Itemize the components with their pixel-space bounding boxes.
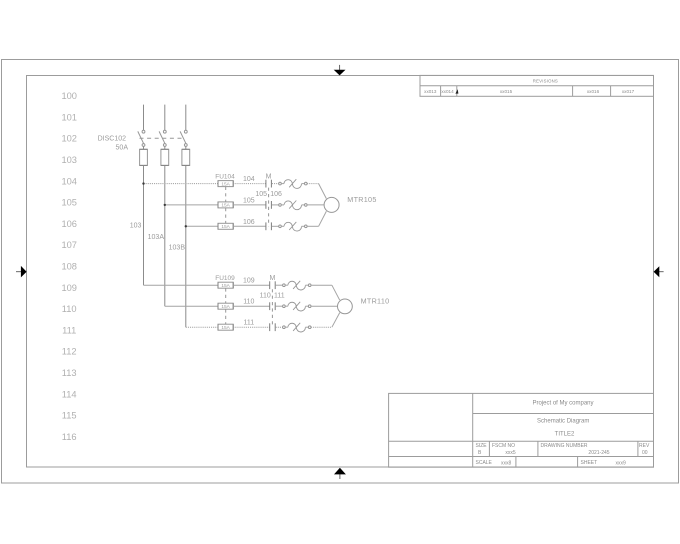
contactor M contact, line 109 [269, 281, 271, 289]
wire: contact to overload, line 109 [276, 284, 283, 286]
disconnect DISC102 pole B: switch blade [159, 131, 165, 143]
wire: fuse to contactor, line 105 [233, 204, 266, 206]
svg-text:15A: 15A [221, 224, 230, 230]
contactor M linkage (dashed), group1 [268, 188, 270, 227]
line fuse, phase B [161, 149, 169, 165]
contactor M contact, line 111 [269, 323, 271, 331]
svg-text:xx014: xx014 [441, 89, 454, 94]
branch fuse FU109 pole 2 (15A) [218, 303, 233, 309]
svg-text:110: 110 [62, 304, 77, 314]
wire: overload to motor, line 105 [307, 204, 324, 206]
motor MTR105 circle [324, 197, 339, 212]
svg-text:M: M [269, 275, 275, 282]
overload heater group1 line 105: element arcs [284, 201, 302, 210]
wire: line 111 tap from phase bus [186, 326, 218, 328]
svg-text:xx013: xx013 [424, 89, 437, 94]
overload heater group2 line 111: left terminal circle [283, 326, 286, 329]
overload heater group1 line 106: left terminal circle [279, 225, 282, 228]
wire: line 104 tap from phase bus [144, 183, 219, 185]
disconnect DISC102 pole C: switch blade [180, 131, 186, 143]
svg-text:Schematic Diagram: Schematic Diagram [537, 418, 589, 424]
svg-text:116: 116 [62, 432, 77, 442]
overload heater group2 line 109: left terminal circle [283, 284, 286, 287]
svg-text:REVISIONS: REVISIONS [533, 78, 558, 83]
motor lead diagonal, line 109 [332, 285, 340, 300]
junction: phase C / line 106 [185, 225, 187, 227]
svg-text:106: 106 [61, 219, 77, 229]
branch fuse FU104 pole 2 (15A) [218, 202, 233, 208]
contactor M linkage (dashed), group2 [271, 289, 273, 327]
revision table [420, 75, 654, 96]
svg-text:114: 114 [62, 389, 77, 399]
svg-text:108: 108 [61, 262, 77, 272]
branch fuse FU104 pole 1 (15A) [218, 181, 233, 187]
overload heater group1 line 106: element arcs [284, 222, 302, 231]
svg-text:107: 107 [61, 240, 77, 250]
wire: phase B bus down to line 110 [164, 165, 166, 306]
left centering arrow [16, 266, 27, 278]
wire inside overload group2 line 110 [285, 305, 288, 307]
motor lead diagonal, line 106 [319, 211, 327, 226]
svg-text:115: 115 [62, 411, 77, 421]
svg-text:xx015: xx015 [500, 89, 513, 94]
wire: pole B to fuse [164, 146, 166, 149]
contactor M contact, line 105 [265, 201, 267, 209]
wire: pole C to fuse [185, 146, 187, 149]
svg-text:15A: 15A [221, 304, 230, 310]
overload heater group1 line 104: left terminal circle [279, 182, 282, 185]
svg-text:FSCM NO: FSCM NO [492, 443, 515, 449]
wire: contact to overload, line 105 [272, 204, 279, 206]
svg-text:xxx9: xxx9 [616, 460, 627, 466]
motor MTR110 circle [338, 299, 353, 314]
wire: contact to overload, line 106 [272, 225, 279, 227]
branch fuse FU109 pole 3 (15A) [218, 324, 233, 330]
wire inside overload group2 line 111 [285, 326, 288, 328]
disconnect DISC102 pole B: bottom contact circle [163, 144, 166, 147]
overload heater group1 line 104: right terminal circle [305, 182, 308, 185]
svg-text:101: 101 [61, 112, 77, 122]
svg-text:113: 113 [62, 368, 77, 378]
svg-text:103: 103 [61, 155, 77, 165]
svg-text:Project of My company: Project of My company [532, 401, 593, 407]
svg-text:111: 111 [274, 293, 285, 300]
svg-text:112: 112 [62, 347, 77, 357]
svg-text:104: 104 [243, 176, 255, 183]
svg-text:15A: 15A [221, 325, 230, 331]
wire: fuse to contactor, line 111 [233, 326, 270, 328]
branch fuse FU104 pole 3 (15A) [218, 223, 233, 229]
wire: line 110 tap from phase bus [165, 305, 218, 307]
wire inside overload group1 line 105 [281, 204, 284, 206]
disconnect DISC102 mechanical linkage (dashed) [140, 137, 185, 139]
wire: fuse to contactor, line 109 [233, 284, 270, 286]
svg-text:104: 104 [61, 176, 77, 186]
top centering arrow [334, 65, 346, 76]
svg-text:103: 103 [130, 223, 142, 230]
wire: phase A incoming drop [143, 105, 145, 131]
wire: fuse to contactor, line 110 [233, 305, 270, 307]
svg-text:2021-245: 2021-245 [588, 450, 609, 456]
svg-text:110: 110 [243, 299, 254, 306]
wire: phase C bus down to line 111 [185, 165, 187, 327]
svg-text:106: 106 [243, 219, 255, 226]
disconnect DISC102 pole A: top contact circle [142, 130, 145, 133]
svg-text:SHEET: SHEET [581, 460, 598, 466]
right centering arrow [654, 266, 664, 277]
svg-text:110: 110 [260, 293, 271, 300]
overload heater group2 line 110: right terminal circle [308, 305, 311, 308]
svg-text:109: 109 [61, 283, 77, 293]
wire: pole A to fuse [143, 146, 145, 149]
overload heater group1 line 104: element arcs [284, 179, 302, 188]
wire inside overload group1 line 106 [281, 225, 284, 227]
svg-text:MTR110: MTR110 [361, 296, 390, 305]
overload heater group2 line 110: left terminal circle [283, 305, 286, 308]
motor lead diagonal, line 104 [319, 184, 327, 199]
line fuse, phase A [140, 149, 148, 165]
wire: overload to motor lead, line 104 [307, 183, 319, 185]
svg-text:105: 105 [61, 198, 77, 208]
wire: overload to motor lead, line 111 [311, 326, 332, 328]
overload heater group1 line 106: right terminal circle [305, 225, 308, 228]
svg-text:xx017: xx017 [622, 89, 635, 94]
wire: overload to motor lead, line 106 [307, 225, 319, 227]
disconnect DISC102 pole A: switch blade [138, 131, 144, 143]
svg-text:xxx5: xxx5 [505, 450, 516, 456]
disconnect DISC102 pole A: bottom contact circle [142, 144, 145, 147]
svg-text:FU104: FU104 [215, 173, 235, 180]
svg-text:103A: 103A [148, 234, 165, 241]
svg-text:DISC102: DISC102 [98, 135, 127, 142]
svg-text:M: M [266, 174, 272, 181]
disconnect DISC102 pole B: top contact circle [163, 130, 166, 133]
overload heater group2 line 111: right terminal circle [308, 326, 311, 329]
svg-text:MTR105: MTR105 [347, 195, 376, 204]
junction: phase B / line 105 [164, 204, 166, 206]
overload heater group1 line 105: left terminal circle [279, 204, 282, 207]
svg-text:xxx8: xxx8 [501, 460, 512, 466]
wire: fuse to contactor, line 104 [233, 183, 266, 185]
overload heater group1 line 105: right terminal circle [305, 204, 308, 207]
svg-text:REV: REV [639, 443, 650, 449]
svg-text:105: 105 [255, 191, 267, 198]
svg-text:103B: 103B [169, 244, 186, 251]
wire: line 105 tap from phase bus [165, 204, 218, 206]
svg-text:DRAWING NUMBER: DRAWING NUMBER [541, 443, 588, 449]
line fuse, phase C [182, 149, 190, 165]
overload heater group2 line 111: element arcs [288, 323, 306, 332]
overload heater group2 line 109: right terminal circle [308, 284, 311, 287]
svg-text:SCALE: SCALE [476, 460, 493, 466]
branch fuse FU109 pole 1 (15A) [218, 282, 233, 288]
svg-text:100: 100 [61, 91, 77, 101]
wire inside overload group1 line 104 [281, 183, 284, 185]
outer sheet border [2, 60, 679, 484]
svg-text:FU109: FU109 [215, 275, 235, 282]
overload heater group2 line 109: element arcs [288, 281, 306, 290]
svg-text:15A: 15A [221, 203, 230, 209]
ladder line numbers 100-116 [61, 91, 77, 442]
svg-text:15A: 15A [221, 181, 230, 187]
wire: contact to overload, line 104 [272, 183, 279, 185]
wire: contact to overload, line 110 [276, 305, 283, 307]
svg-text:50A: 50A [116, 145, 129, 152]
disconnect DISC102 pole C: top contact circle [184, 130, 187, 133]
wire: line 106 tap from phase bus [186, 225, 218, 227]
wire inside overload group2 line 109 [285, 284, 288, 286]
svg-text:SIZE: SIZE [476, 443, 488, 449]
disconnect DISC102 pole C: bottom contact circle [184, 144, 187, 147]
contactor M contact, line 104 [265, 180, 267, 188]
wire: line 109 tap from phase bus [144, 284, 219, 286]
contactor M contact, line 106 [265, 222, 267, 230]
contactor M contact, line 110 [269, 302, 271, 310]
overload heater group2 line 110: element arcs [288, 302, 306, 311]
title block frame [389, 393, 654, 467]
svg-text:TITLE2: TITLE2 [555, 432, 575, 438]
svg-text:111: 111 [62, 325, 76, 335]
wire: contact to overload, line 111 [276, 326, 283, 328]
svg-text:105: 105 [243, 197, 255, 204]
fuse group linkage (dashed), FU109 [225, 288, 227, 303]
junction: phase A / line 104 [142, 182, 144, 184]
wire: phase B incoming drop [164, 105, 166, 131]
inner drawing border [27, 76, 654, 468]
svg-text:111: 111 [243, 320, 254, 327]
svg-text:102: 102 [61, 134, 77, 144]
svg-text:00: 00 [642, 450, 648, 456]
svg-text:15A: 15A [221, 283, 230, 289]
wire: phase C incoming drop [185, 105, 187, 131]
wire: overload to motor, line 110 [311, 305, 338, 307]
wire: overload to motor lead, line 109 [311, 284, 332, 286]
motor lead diagonal, line 111 [332, 313, 340, 328]
svg-text:109: 109 [243, 278, 255, 285]
fuse group linkage (dashed), FU104 [225, 187, 227, 202]
svg-text:106: 106 [270, 191, 282, 198]
svg-text:xx016: xx016 [587, 89, 600, 94]
bottom centering arrow [334, 468, 346, 479]
wire: fuse to contactor, line 106 [233, 225, 266, 227]
revision marker triangle [455, 89, 458, 93]
wire: phase A bus down to line 109 [143, 165, 145, 285]
